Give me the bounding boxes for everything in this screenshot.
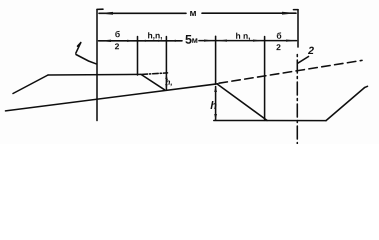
dimension line row2 xyxy=(99,40,183,42)
canal bottom xyxy=(214,120,326,122)
svg-text:2: 2 xyxy=(115,41,120,51)
tick 265 / extension to canal bottom xyxy=(264,37,266,121)
right bank tip hook xyxy=(365,86,368,87)
extension line left (x=97) xyxy=(96,10,98,121)
h1 dimension arrow down xyxy=(165,84,167,89)
dimension line M right part xyxy=(202,12,296,14)
tick 137 / extension to berm xyxy=(137,37,139,76)
dimension line row2 mid xyxy=(199,40,297,42)
h dimension line xyxy=(215,87,217,121)
leader 1 xyxy=(76,55,96,64)
arrow right end xyxy=(286,40,297,42)
tick 215 / extension to ground junction xyxy=(215,36,217,84)
svg-text:м: м xyxy=(192,35,198,45)
berm level dash-dot extension xyxy=(142,73,168,75)
svg-text:h: h xyxy=(210,100,217,112)
h dimension arrow up xyxy=(214,86,217,92)
arrow M left xyxy=(98,12,113,15)
svg-text:h n,: h n, xyxy=(235,31,250,41)
arrow right of tick 137 xyxy=(139,40,146,42)
left bank slope xyxy=(13,75,48,94)
dimension line M xyxy=(99,12,186,14)
dashed ground continuation xyxy=(219,60,362,83)
svg-text:б: б xyxy=(276,31,281,41)
ground surface line xyxy=(6,84,218,111)
leader 2 xyxy=(298,57,309,64)
right bank slope xyxy=(326,88,365,121)
svg-text:h,: h, xyxy=(165,78,172,87)
arrow left of tick 137 xyxy=(127,40,137,42)
berm top line xyxy=(48,73,141,76)
arrow right of tick 167 xyxy=(168,40,176,42)
svg-text:h,n,: h,n, xyxy=(147,30,162,40)
h dimension arrow down xyxy=(214,114,217,120)
label 1 stroke xyxy=(76,43,81,54)
arrow row2 far-left xyxy=(98,40,111,42)
canal left inner slope xyxy=(141,74,165,89)
h1 dimension arrow up xyxy=(165,74,167,79)
svg-text:б: б xyxy=(115,29,120,39)
arrow left of tick 215 xyxy=(204,40,215,42)
svg-text:2: 2 xyxy=(276,42,281,52)
arrow right of tick 215 xyxy=(217,40,227,42)
svg-text:2: 2 xyxy=(307,45,314,57)
centerline axis 2 dash-dot xyxy=(296,55,298,144)
arrow left of tick 167 xyxy=(158,40,166,42)
canal main slope xyxy=(218,84,268,120)
label 1 flag xyxy=(78,43,81,47)
serif top right xyxy=(294,9,299,11)
tick 167 / extension to h1 xyxy=(165,37,167,90)
arrow M right xyxy=(282,12,297,15)
svg-text:м: м xyxy=(189,8,196,19)
extension line right top (x=298) xyxy=(297,10,299,47)
arrow left of tick 265 xyxy=(253,40,264,42)
serif top left xyxy=(97,8,103,10)
